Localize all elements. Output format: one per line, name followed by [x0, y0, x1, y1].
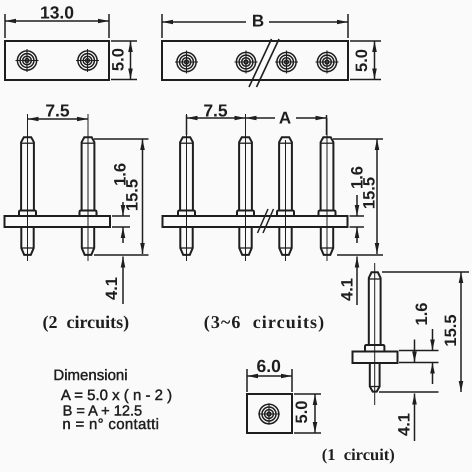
side view 1 circuit: insulator bar [353, 352, 398, 364]
pin tip reference line (1 circuit) [379, 391, 439, 393]
dimension 5.0 (3~6 circuit top view height) [350, 41, 381, 80]
dimension A (3~6 circuit outer pin pitch) [246, 109, 327, 136]
svg-text:15.5: 15.5 [124, 179, 142, 211]
top view 2-circuit header body [5, 41, 109, 80]
svg-text:A: A [279, 109, 291, 128]
pin tip reference line (2-circuit) [94, 254, 149, 256]
formula text: A = 5.0 x ( n - 2 ) [61, 387, 172, 404]
dimension 5.0 (2-circuit top view height) [110, 41, 138, 80]
side view 2-circuit: pin 1 centerline [27, 114, 29, 261]
side view 3~6 circuit: pin 4 centerline [326, 118, 328, 261]
side view 3~6 circuit: pin 2 centerline [245, 114, 247, 261]
pin 4 hole target (top view, 3~6 circuit) [316, 51, 339, 74]
dimension 5.0 (1-circuit top view height) [293, 394, 321, 433]
svg-text:6.0: 6.0 [257, 356, 282, 376]
top view 3~6 circuit header body [162, 41, 348, 80]
dimension 1.6 (2-circuit bar thickness) [112, 163, 130, 243]
side view 3~6 circuit: pin 3 centerline [285, 140, 287, 261]
side view 3~6 circuit: pin 1 centerline [186, 114, 188, 261]
side view 3~6 circuit: insulator bar [163, 216, 348, 227]
svg-text:4.1: 4.1 [103, 277, 121, 300]
caption (3~6 circuits) [204, 312, 326, 332]
dimension 6.0 (1-circuit top view width) [247, 356, 292, 392]
pin 3 hole target (top view, 3~6 circuit) [275, 51, 298, 74]
dimension 4.1 (1 circuit pin protrusion) [396, 340, 417, 442]
svg-text:7.5: 7.5 [45, 101, 70, 121]
svg-text:(1 circuit): (1 circuit) [322, 445, 395, 464]
svg-text:(3~6 circuits): (3~6 circuits) [204, 312, 326, 332]
svg-text:5.0: 5.0 [353, 49, 371, 72]
pin 2 hole target (top view, 2-circuit) [76, 49, 99, 72]
dimension 1.6 (3~6 circuit bar thickness) [349, 166, 367, 243]
side view 2-circuit: pin 2 centerline [87, 114, 89, 261]
dimension B (3~6 circuit top view width) [162, 12, 348, 39]
svg-text:4.1: 4.1 [339, 278, 357, 301]
break symbol (top view) [249, 39, 279, 87]
dimension 15.5 (2-circuit overall height) [94, 139, 149, 254]
side view 3~6 circuit: pin 2 [237, 137, 254, 255]
pin 2 hole target (top view, 3~6 circuit) [235, 51, 258, 74]
pin tip reference line (3~6 circuit) [337, 254, 383, 256]
pin 1 hole target (top view, 3~6 circuit) [175, 51, 198, 74]
svg-text:15.5: 15.5 [361, 177, 379, 209]
side view 2-circuit: insulator bar [5, 216, 111, 227]
svg-text:1.6: 1.6 [413, 303, 431, 326]
formula text: B = A + 12.5 [63, 404, 143, 420]
side view 3~6 circuit: pin 4 [319, 137, 336, 255]
svg-text:5.0: 5.0 [293, 401, 311, 424]
side view 2-circuit: pin 2 [80, 137, 97, 255]
svg-text:15.5: 15.5 [442, 314, 460, 346]
dimension 7.5 (3~6 circuit pin pitch) [187, 101, 246, 136]
svg-text:13.0: 13.0 [40, 3, 74, 23]
dimension 13.0 (2-circuit top view width) [5, 3, 109, 38]
top view 1-circuit body [247, 394, 292, 433]
formula text: Dimensioni [53, 367, 127, 384]
pin 1 hole target (top view, 2-circuit) [16, 49, 39, 72]
svg-text:4.1: 4.1 [396, 413, 414, 436]
svg-text:B: B [252, 12, 264, 31]
svg-text:(2 circuits): (2 circuits) [42, 312, 129, 332]
caption (2 circuits) [42, 312, 129, 332]
side view 3~6 circuit: pin 1 [178, 137, 195, 255]
dimension 7.5 (2-circuit pin pitch) [28, 101, 89, 122]
side view 3~6 circuit: pin 3 [277, 137, 294, 255]
dimension 4.1 (2-circuit pin protrusion) [103, 257, 125, 305]
svg-text:Dimensioni: Dimensioni [53, 367, 127, 384]
svg-text:7.5: 7.5 [203, 101, 228, 121]
caption (1 circuit) [322, 445, 395, 464]
svg-text:n = n° contatti: n = n° contatti [62, 416, 159, 433]
dimension 4.1 (3~6 circuit pin protrusion) [339, 257, 360, 306]
break symbol (side view) [258, 209, 274, 233]
dimension 1.6 (1 circuit bar thickness) [399, 303, 439, 384]
side view 1 circuit: pin centerline [374, 263, 376, 405]
dimension 15.5 (3~6 circuit overall height) [333, 139, 383, 254]
svg-text:A = 5.0 x ( n - 2 ): A = 5.0 x ( n - 2 ) [61, 387, 172, 404]
svg-text:5.0: 5.0 [110, 48, 128, 71]
pin hole target (top view, 1 circuit) [258, 403, 280, 425]
pin top reference line (1 circuit) [382, 271, 469, 273]
side view 1 circuit: pin [365, 272, 384, 391]
dimension 15.5 (1 circuit overall height) [442, 272, 463, 392]
side view 2-circuit: pin 1 [19, 137, 36, 255]
formula text: n = n&#176; contatti [62, 416, 159, 433]
